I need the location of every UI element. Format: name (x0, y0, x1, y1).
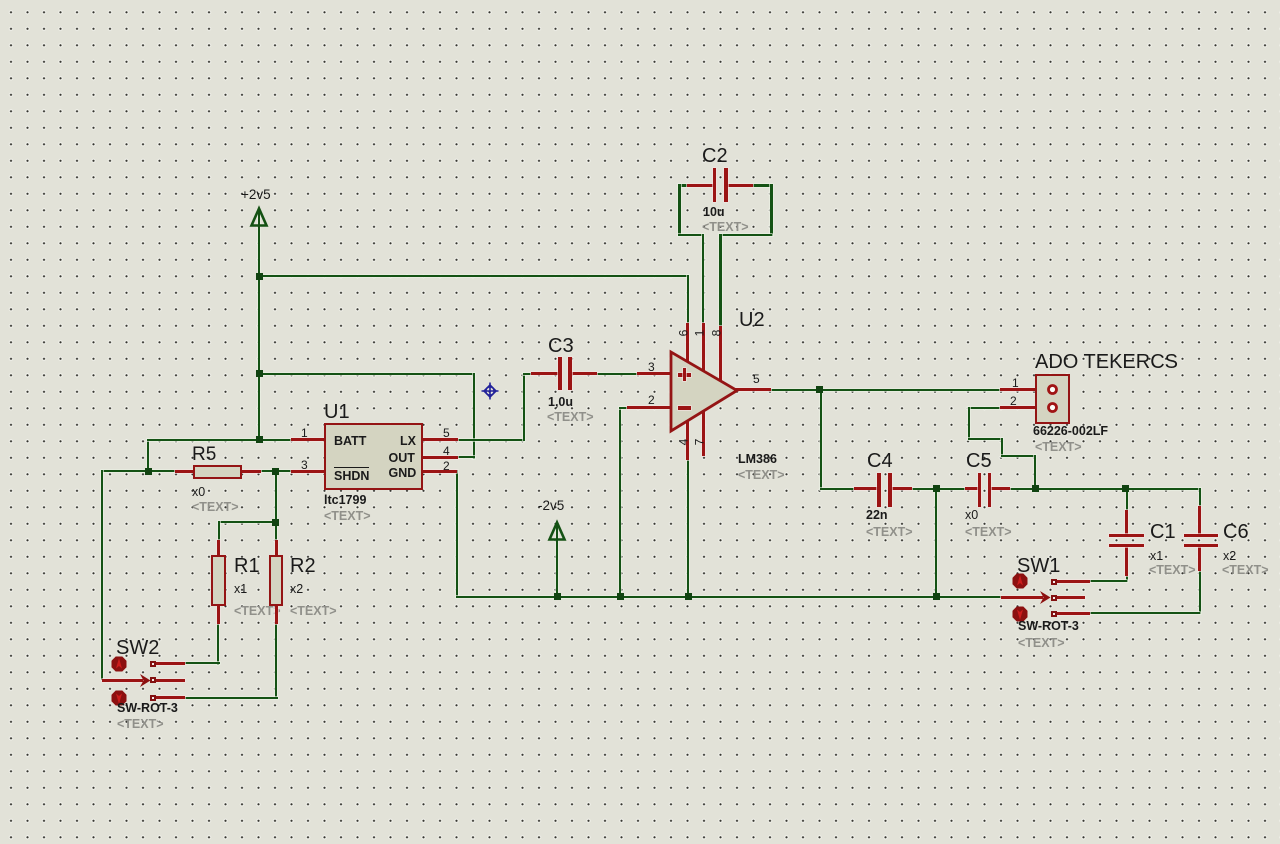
wire R5 to SHDN (260, 470, 292, 472)
wire C6 lower drop (1199, 569, 1201, 614)
op-amp U2 labels (739, 310, 765, 330)
switch SW1 terminal squares (1051, 579, 1057, 585)
capacitor C3 leads (531, 372, 558, 375)
switch SW2 common arrowhead (139, 674, 152, 687)
op-amp U2 pin numbers (648, 361, 655, 373)
wire SW2 bottom row (184, 697, 278, 699)
wire SW1 top row (1089, 580, 1127, 582)
IC U1 pin1 stub (291, 438, 325, 441)
junction node R5 left (145, 468, 152, 475)
op-amp U2 pin2 stub (627, 406, 672, 409)
wire ground bus y596 (456, 596, 1002, 598)
wire staircase v3 (1034, 455, 1036, 489)
resistor R5 body (193, 465, 242, 479)
wire staircase v2 (1001, 438, 1003, 457)
wire -2v5 drop (556, 525, 558, 597)
IC U1 pin names (334, 435, 366, 448)
junction node C4 bus (933, 593, 940, 600)
IC U1 pin2 stub (422, 470, 457, 473)
switch SW1 common lead (1001, 596, 1043, 599)
capacitor C5 plates (978, 473, 982, 507)
wire LX riser x524 (523, 373, 525, 441)
resistor R5 labels (192, 445, 216, 464)
switch SW1 pole dot top (1012, 573, 1028, 589)
wire C4-C5 link (911, 488, 967, 490)
junction node -2v5 bus (554, 593, 561, 600)
wire output drop x821 (820, 389, 822, 490)
IC U1 pin numbers (301, 427, 308, 439)
wire C2 left loop (678, 184, 689, 187)
op-amp U2 triangle (668, 349, 740, 434)
op-amp U2 plus sign (678, 373, 691, 377)
wire SW1 bottom row (1089, 612, 1200, 614)
switch SW2 common stub right (156, 679, 185, 682)
wire far-left drop x102 (101, 470, 103, 680)
capacitor C4 plates (877, 473, 881, 507)
switch SW2 labels (116, 638, 159, 658)
wire R1 top riser (218, 521, 220, 542)
junction node +2v5/pin1 (256, 436, 263, 443)
switch SW2 throw stub top (156, 662, 185, 665)
wire SW2 top row (184, 662, 220, 664)
wire R1 bottom drop (217, 623, 219, 665)
wire C1 riser top (1126, 488, 1128, 512)
op-amp U2 pin6 stub (686, 323, 689, 363)
capacitor C6 labels (1223, 522, 1249, 542)
switch SW2 terminal squares (150, 661, 156, 667)
wire staircase h1 (968, 438, 1003, 440)
power +2v5 symbol (247, 205, 271, 229)
IC U1 body (324, 423, 424, 490)
wire R5 row left (101, 470, 176, 472)
switch SW2 pole dot bottom (111, 690, 127, 706)
wire mid rail y373 to U1 OUT (258, 373, 475, 375)
wire staircase v1 (968, 407, 970, 440)
capacitor C5 leads (965, 487, 979, 490)
resistor R2 leads (275, 540, 278, 556)
capacitor C2 labels (702, 146, 728, 166)
switch SW1 common stub right (1056, 596, 1085, 599)
switch SW1 throw stub bottom (1056, 612, 1090, 615)
junction node R1R2 (272, 519, 279, 526)
wire C3 right to opamp pin3 (595, 373, 639, 375)
origin marker (blue crosshair) (481, 382, 499, 400)
junction node C5 right (1032, 485, 1039, 492)
resistor R2 body (269, 555, 284, 606)
capacitor C1 leads (1125, 510, 1128, 536)
wire C2 right loop (752, 184, 772, 187)
capacitor C1 labels (1150, 522, 1176, 542)
junction node R5 right (272, 468, 279, 475)
capacitor C4 leads (854, 487, 878, 490)
wire C4 node drop x936 (935, 488, 937, 597)
switch SW1 pole dot bottom (1012, 606, 1028, 622)
connector J1 pin numbers (1012, 377, 1019, 389)
power +2v5 label (241, 188, 271, 202)
op-amp U2 pin3 stub (637, 372, 672, 375)
op-amp U2 output stub (735, 388, 771, 391)
wire C6 riser top (1199, 488, 1201, 508)
op-amp U2 pin4 stub (686, 419, 689, 460)
junction node C4C5 (933, 485, 940, 492)
op-amp U2 pin1 stub (702, 323, 705, 372)
wire C3 left link (523, 373, 533, 375)
capacitor C3 plates (558, 357, 562, 390)
wire opamp pin2 drop x620 (619, 407, 621, 597)
switch SW2 throw stub bottom (156, 696, 185, 699)
capacitor C3 labels (548, 336, 574, 356)
capacitor C6 leads (1198, 506, 1201, 536)
connector J1 pin2 stub (1000, 406, 1035, 409)
op-amp U2 pin8 stub (719, 326, 722, 382)
wire LX pin5 link (457, 439, 525, 441)
capacitor C2 leads (687, 184, 713, 187)
wire U1 GND drop x457 (456, 470, 458, 597)
connector J1 body (1035, 374, 1070, 425)
wire BATT pin1 row y439.5 (147, 439, 292, 441)
wire R1R2 node drop x276 (275, 470, 277, 542)
power -2v5 symbol (545, 519, 569, 543)
IC U1 labels (324, 402, 350, 422)
junction node C1 top (1122, 485, 1129, 492)
resistor R1 labels (234, 556, 260, 576)
resistor R2 labels (290, 556, 316, 576)
capacitor C6 plates (1184, 534, 1218, 538)
wire R2 bottom drop (275, 623, 277, 699)
switch SW2 pole dot top (111, 656, 127, 672)
wire top rail y276 to opamp pin6 (258, 275, 689, 277)
junction node output (816, 386, 823, 393)
junction node pin4 bus (685, 593, 692, 600)
wire OUT pin4 link (457, 456, 475, 458)
wire opamp output y389.5 (770, 389, 1001, 391)
resistor R1 body (211, 555, 226, 606)
junction node pin2 bus (617, 593, 624, 600)
wire BATT corner riser x148 (147, 439, 149, 473)
capacitor C2 plates (713, 168, 717, 202)
power -2v5 label (538, 499, 564, 513)
connector J1 pin rings (1046, 383, 1059, 396)
junction node top rail (256, 273, 263, 280)
op-amp U2 minus sign (678, 406, 691, 410)
wire R1 branch y522 (218, 521, 277, 523)
resistor R5 leads (175, 470, 195, 473)
wire C5 right row (1009, 488, 1201, 490)
wire opamp pin6 riser x688 (687, 275, 689, 325)
capacitor C4 labels (867, 451, 893, 471)
switch SW2 common lead (102, 679, 143, 682)
switch SW1 common arrowhead (1039, 591, 1052, 604)
wire opamp pin2 link (619, 407, 629, 409)
wire opamp pin4 drop x688 (687, 459, 689, 597)
capacitor C1 plates (1109, 534, 1145, 538)
IC U1 pin5 stub (422, 438, 458, 441)
op-amp U2 pin7 stub (702, 409, 705, 456)
wire staircase h2 (1001, 455, 1036, 457)
wire connector pin2 link (968, 407, 1001, 409)
wire C4 row left (820, 488, 856, 490)
connector J1 pin1 stub (1000, 388, 1035, 391)
wire +2v5 vertical drop (258, 211, 260, 440)
resistor R1 leads (217, 540, 220, 556)
capacitor C5 labels (966, 451, 992, 471)
wire C1 lower drop (1126, 574, 1128, 582)
switch SW1 labels (1017, 556, 1060, 576)
switch SW1 throw stub top (1056, 580, 1090, 583)
IC U1 pin4 stub (422, 456, 458, 459)
IC U1 pin3 stub (291, 470, 325, 473)
junction node mid rail (256, 370, 263, 377)
wire OUT riser x474 (473, 373, 475, 459)
connector J1 labels (1035, 352, 1178, 372)
